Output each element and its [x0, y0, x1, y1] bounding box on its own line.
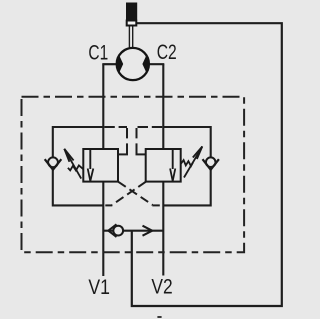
wire C2 port horizontal: [148, 63, 164, 65]
check valve CV2 (right bypass): [206, 157, 216, 167]
pilot line from C1 (dashed, to left valve): [104, 126, 127, 128]
check valve CV3 (bottom): [113, 226, 123, 236]
adjustment arrow of V2R: [184, 146, 202, 177]
wire C1 port horizontal: [102, 63, 117, 65]
collar under knob: [127, 21, 137, 26]
crossed pilot lines (dashed X): [118, 182, 152, 205]
enclosure (valve assembly boundary, chain line): [22, 97, 245, 253]
svg-text:V1: V1: [88, 275, 110, 299]
motor M1 (bidirectional hydraulic motor): [117, 48, 149, 80]
page artifact mark at bottom: [157, 316, 161, 318]
svg-text:V2: V2: [151, 275, 172, 299]
wire right bypass branch: [163, 127, 210, 205]
flow arrow inside V1L: [89, 149, 91, 169]
counterbalance valve V2R (right element): [146, 149, 181, 182]
spring of V2R: [181, 160, 193, 166]
wire C1 vertical: [102, 64, 104, 276]
counterbalance valve V1L (left element): [83, 149, 118, 182]
pilot line from C2 (dashed, to right valve): [137, 126, 163, 128]
wire bottom cross line: [103, 230, 163, 232]
spring of V1L: [68, 165, 83, 170]
wire C2 vertical: [162, 64, 164, 275]
svg-text:C1: C1: [88, 41, 108, 65]
flow arrow inside V2R: [172, 149, 174, 169]
shaft (double line): [128, 27, 130, 49]
wire drain/vent line (top, right side, bottom): [132, 23, 282, 306]
knob (manual release): [126, 3, 137, 20]
adjustment arrow of V1L: [64, 149, 81, 179]
svg-text:C2: C2: [157, 40, 177, 64]
wire left bypass branch: [53, 127, 104, 205]
check valve CV1 (left bypass): [48, 157, 58, 167]
flow direction arrow: [143, 226, 153, 231]
